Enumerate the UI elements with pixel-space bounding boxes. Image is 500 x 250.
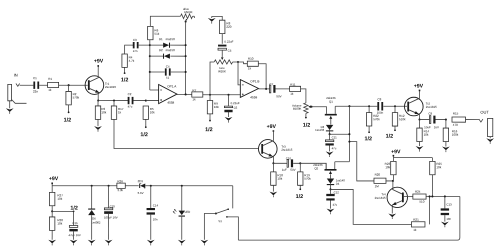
svg-text:C2: C2 <box>128 92 132 96</box>
LED indicator <box>181 186 183 211</box>
svg-text:570k: 570k <box>304 177 311 181</box>
transistor Q1 2sk246 <box>325 114 337 116</box>
svg-text:10k: 10k <box>214 105 219 109</box>
wire (+9V to Tr3 collector) <box>272 132 274 141</box>
svg-text:S1: S1 <box>218 219 222 223</box>
wire (divider to bias tap) <box>52 210 73 212</box>
node (rail/D1) <box>149 44 151 46</box>
svg-text:C7: C7 <box>269 82 273 86</box>
wire (node B to R3) <box>97 101 99 106</box>
wire (C2 to node D) <box>134 100 146 102</box>
zener diode ZD1 5.6V <box>140 183 145 188</box>
svg-text:47u: 47u <box>128 105 133 109</box>
svg-text:A500K: A500K <box>184 10 193 14</box>
transistor Tr2 2sc1815 <box>405 97 424 116</box>
node E (R7/R9/tone) <box>209 94 211 96</box>
capacitor C3 <box>133 42 135 48</box>
wire (R21 riser) <box>429 196 431 224</box>
svg-text:R26: R26 <box>117 179 123 183</box>
diode D2 ma150 <box>150 55 164 57</box>
capacitor C11 <box>329 134 331 140</box>
wire (emitter line to C2) <box>98 100 128 102</box>
resistor R15 <box>452 117 466 122</box>
diode D3 1ss133 <box>326 125 333 130</box>
svg-text:100uF 16V: 100uF 16V <box>104 216 118 220</box>
capacitor C2 <box>128 97 130 104</box>
svg-text:10k: 10k <box>57 197 62 201</box>
resistor R14 <box>418 120 420 129</box>
svg-text:1/2: 1/2 <box>64 118 72 124</box>
ground (C15) <box>108 214 110 240</box>
node G (tone/R10) <box>237 61 239 63</box>
wire (OP1.A output) <box>177 93 192 95</box>
ground (R3) <box>97 119 99 126</box>
resistor R11 <box>290 86 301 91</box>
svg-text:1/2: 1/2 <box>386 134 394 140</box>
svg-text:510k: 510k <box>399 117 406 121</box>
svg-text:10n: 10n <box>153 217 158 221</box>
wire (+9V to R27) <box>51 184 53 192</box>
wire (R1 to Tr1 base) <box>59 84 88 86</box>
wire (gate rail to R20) <box>349 142 374 181</box>
svg-text:1uF: 1uF <box>282 168 287 172</box>
node (R22 top) <box>368 105 370 107</box>
svg-text:1/2: 1/2 <box>70 206 78 212</box>
svg-text:ma150: ma150 <box>166 48 176 52</box>
wire (Tr4 emitter to ground) <box>391 205 393 213</box>
svg-text:C16: C16 <box>72 221 78 225</box>
svg-text:LED: LED <box>185 210 191 214</box>
wire (R2 to switch tap) <box>68 105 70 113</box>
wire (C8 to Tr2 base) <box>383 105 407 107</box>
svg-text:1ss133: 1ss133 <box>315 128 324 132</box>
svg-text:16V: 16V <box>434 125 439 129</box>
wire (R10 to OP1.B output) <box>258 64 266 89</box>
svg-text:+9V: +9V <box>94 59 104 65</box>
svg-text:C14: C14 <box>153 204 159 208</box>
ground (C5) <box>228 112 230 117</box>
ground (S1) <box>200 240 208 244</box>
wire (Tr2 emitter down) <box>419 114 421 119</box>
wire (Q1 source to C8 line) <box>335 105 377 107</box>
node (feedback/output) <box>265 88 267 90</box>
svg-text:1k: 1k <box>192 97 196 101</box>
resistor R21 <box>411 222 425 227</box>
resistor R4 <box>122 54 127 67</box>
wire (ZD1 to switch corner) <box>145 185 232 187</box>
svg-text:1n4002: 1n4002 <box>91 221 101 225</box>
svg-text:51k: 51k <box>154 32 159 36</box>
node H (gate rail top) <box>348 105 350 107</box>
wire (+9V to Tr1 collector) <box>97 67 99 78</box>
input tip connector <box>16 84 20 87</box>
svg-text:22n: 22n <box>33 90 38 94</box>
svg-text:C3: C3 <box>133 38 137 42</box>
svg-text:4558: 4558 <box>167 101 174 105</box>
capacitor C14 <box>150 186 152 208</box>
wire (R6 top to drive pot) <box>150 16 180 26</box>
wire (Tr4 base to R24) <box>404 196 413 198</box>
capacitor C8 <box>377 102 379 110</box>
node (Tr3 emitter) <box>272 162 274 164</box>
ground (R8 top) <box>212 16 223 20</box>
node M (C13 top) <box>444 195 446 197</box>
wire (D4 node to R21) <box>330 189 411 224</box>
svg-text:2sc1815: 2sc1815 <box>375 196 386 200</box>
svg-text:2sc1815: 2sc1815 <box>281 148 292 152</box>
svg-text:ZD1: ZD1 <box>138 179 144 183</box>
svg-text:470: 470 <box>453 123 458 127</box>
svg-text:R10: R10 <box>248 57 254 61</box>
svg-text:+9V: +9V <box>414 83 424 89</box>
capacitor C12 <box>329 189 331 194</box>
wire (R26 to ZD1) <box>125 185 138 187</box>
svg-text:1M: 1M <box>375 184 380 188</box>
svg-text:1k: 1k <box>248 66 252 70</box>
svg-text:OP1.B: OP1.B <box>250 79 259 83</box>
wire (D3 node to gate rail) <box>330 133 350 135</box>
svg-text:+9V: +9V <box>391 149 401 155</box>
resistor R27 <box>49 192 54 205</box>
svg-text:C6: C6 <box>228 49 232 53</box>
svg-text:220: 220 <box>226 25 231 29</box>
svg-text:2sc1815: 2sc1815 <box>105 85 116 89</box>
svg-text:R11: R11 <box>290 83 296 87</box>
node (rail/D2) <box>149 55 151 57</box>
svg-text:10uF: 10uF <box>424 125 431 129</box>
node K (Tr4 collector) <box>392 180 394 182</box>
svg-text:OP1.A: OP1.A <box>167 84 177 88</box>
svg-text:R24: R24 <box>415 190 421 194</box>
svg-text:47u: 47u <box>332 146 337 150</box>
wire (gate rail upper) <box>348 106 350 162</box>
resistor R22 <box>368 106 370 112</box>
output tip connector <box>479 119 483 122</box>
svg-text:D1: D1 <box>159 37 163 41</box>
resistor R25 <box>430 161 435 174</box>
node C (R17 top) <box>113 100 115 102</box>
node L (R25 bottom) <box>431 195 433 197</box>
svg-text:1/2: 1/2 <box>303 123 311 129</box>
resistor R18 <box>272 163 274 172</box>
wire (C9 to node I) <box>436 119 446 121</box>
ground (R16) <box>445 141 447 146</box>
tone pot wiper <box>221 50 223 57</box>
ground (C12) <box>329 201 331 209</box>
op-amp OP1.B 4558 <box>240 80 258 98</box>
node (D4/C12) <box>329 184 331 190</box>
svg-text:+9V: +9V <box>267 124 277 130</box>
wire (R25 to node L) <box>431 175 433 197</box>
ground (R18) <box>272 185 274 191</box>
resistor R7 <box>192 92 203 97</box>
wire (wiper to right rail) <box>185 22 187 95</box>
svg-text:1k: 1k <box>413 228 417 232</box>
ground (C14) <box>150 215 152 240</box>
resistor R6 <box>148 26 153 39</box>
node B (Tr1 emitter) <box>97 99 99 101</box>
svg-text:C1: C1 <box>33 76 37 80</box>
diode D4 1ss133 <box>327 179 334 184</box>
svg-text:C11: C11 <box>332 135 337 139</box>
wire (tip to C1) <box>20 84 34 86</box>
svg-text:10k: 10k <box>436 165 441 169</box>
svg-text:1k: 1k <box>48 88 52 92</box>
svg-text:47uF 16V: 47uF 16V <box>69 233 81 237</box>
wire (C1 to R1) <box>39 84 47 86</box>
ground (Tr4 emitter) <box>388 213 396 217</box>
svg-text:C13: C13 <box>446 202 452 206</box>
ground (D6) <box>91 215 93 240</box>
svg-text:C10: C10 <box>286 156 292 160</box>
wire (node C to R17) <box>113 101 115 106</box>
resistor R12 <box>394 106 396 112</box>
wire (Q2 source to gate rail) <box>335 161 350 163</box>
resistor R19 <box>299 163 301 172</box>
transistor Tr4 2sc1815 (mirrored) <box>387 187 407 207</box>
svg-text:R15: R15 <box>453 111 459 115</box>
potentiometer VR3 Volume B100K <box>304 103 308 114</box>
svg-text:W20K: W20K <box>218 69 226 73</box>
resistor R5 <box>143 106 148 119</box>
svg-text:C9: C9 <box>428 112 432 116</box>
wire (node K to Tr4 collector) <box>392 181 394 190</box>
wire (R20 to collector node) <box>386 180 393 182</box>
svg-text:R20: R20 <box>375 173 381 177</box>
wire (node G to OP1.B inv) <box>238 62 240 85</box>
wire (OP1.B out to C7) <box>259 88 270 90</box>
svg-text:OUT: OUT <box>480 110 489 115</box>
wire (volume bottom to tap) <box>305 113 307 117</box>
node (R27/R28 divider) <box>51 210 53 212</box>
op-amp OP1.A 4558 <box>159 84 177 103</box>
diode D1 ma150 <box>150 44 163 46</box>
wire (Q2 gate to D4) <box>329 174 331 178</box>
node D (R5 top) <box>145 100 147 102</box>
ground (C11) <box>329 146 331 152</box>
wire (+9V to Tr2 collector) <box>419 91 421 99</box>
transistor Tr3 2sc1815 <box>258 140 277 159</box>
svg-text:C4: C4 <box>166 65 170 69</box>
wire (R17 to Tr3 base) <box>114 119 258 148</box>
wire (Tr1 emitter down) <box>97 93 99 101</box>
node (D6 top) <box>91 185 93 187</box>
capacitor C15 100uF 16V <box>108 186 110 208</box>
wire (Tr3 emitter down) <box>272 157 274 164</box>
svg-text:10n: 10n <box>446 217 451 221</box>
svg-text:570k: 570k <box>73 96 80 100</box>
svg-text:C8: C8 <box>377 97 381 101</box>
wire (S1 lower to loop) <box>228 217 239 240</box>
potentiometer VR2 tone W20K <box>214 60 232 64</box>
wire (R19 to switch tap) <box>299 185 301 189</box>
output jack J2 <box>488 118 493 136</box>
node (C4/right rail) <box>185 71 187 73</box>
svg-text:D2: D2 <box>159 48 163 52</box>
svg-text:10k: 10k <box>101 110 106 114</box>
resistor R8 <box>220 20 225 33</box>
wire (R9 to switch tap) <box>209 114 211 121</box>
wire (R15 to output) <box>466 119 479 121</box>
svg-text:10k: 10k <box>385 165 390 169</box>
volume pot wiper <box>308 105 311 108</box>
svg-text:1/2: 1/2 <box>121 77 129 83</box>
node (R12 top) <box>394 105 396 107</box>
svg-text:3.3k: 3.3k <box>117 188 123 192</box>
svg-text:R1: R1 <box>48 77 52 81</box>
svg-text:C12: C12 <box>334 190 340 194</box>
wire (R5 to switch tap) <box>145 119 147 127</box>
switch S1 lever <box>216 209 228 213</box>
transistor Tr1 2sc1815 <box>85 76 104 95</box>
svg-text:10k: 10k <box>150 110 155 114</box>
wire (node A to R2) <box>68 85 70 91</box>
potentiometer VR1 drive A500K <box>181 14 193 19</box>
svg-text:IN: IN <box>14 73 18 78</box>
svg-text:1k: 1k <box>118 110 122 114</box>
wire (R7 to OP1.B +) <box>203 94 241 96</box>
node (rail/C4) <box>149 71 151 73</box>
wire (R23 to node K) <box>392 175 394 181</box>
input jack J1 <box>8 84 12 100</box>
wire (node J to Q2 drain) <box>300 163 326 169</box>
svg-text:10k: 10k <box>277 177 282 181</box>
wire (S1 pole to ground) <box>204 213 216 239</box>
wire (rail to OP1.A inv) <box>150 89 159 91</box>
wire (node D to op-amp +) <box>146 100 159 102</box>
svg-text:D4: D4 <box>336 182 340 186</box>
svg-text:R21: R21 <box>413 218 419 222</box>
svg-text:4558: 4558 <box>250 95 257 99</box>
wire (rail to S1 upper contact) <box>232 186 234 209</box>
wire (left rail) <box>149 40 151 90</box>
resistor R23 <box>391 161 396 174</box>
resistor R17 <box>111 106 116 119</box>
drive pot wiper <box>185 19 188 21</box>
svg-text:0.22uF: 0.22uF <box>224 40 233 44</box>
capacitor C10 1uF 50V <box>287 159 288 167</box>
capacitor C16 47uF 16V <box>73 211 75 225</box>
wire (R24 to loop) <box>426 195 460 197</box>
resistor R1 <box>48 82 59 87</box>
capacitor C7 <box>270 85 271 93</box>
capacitor C9 10uF 16V <box>430 116 431 124</box>
svg-text:R7: R7 <box>192 88 196 92</box>
svg-text:5.6V: 5.6V <box>138 191 144 195</box>
ground (R28) <box>51 230 53 239</box>
capacitor C13 <box>444 196 446 208</box>
svg-text:1k: 1k <box>290 92 294 96</box>
wire (emitter to C9) <box>420 119 430 121</box>
svg-text:C5: C5 <box>234 106 238 110</box>
ground (C13) <box>444 215 446 222</box>
svg-text:1/2: 1/2 <box>205 127 213 133</box>
svg-text:100k: 100k <box>452 133 459 137</box>
svg-text:1/2: 1/2 <box>296 194 304 200</box>
svg-text:50V: 50V <box>290 168 295 172</box>
node (D3/C11) <box>329 130 331 134</box>
svg-text:51: 51 <box>166 76 170 80</box>
svg-text:570k: 570k <box>373 117 380 121</box>
node (C14 top) <box>150 185 152 187</box>
wire (R12 to switch tap) <box>394 126 396 130</box>
wire (C3 to left rail) <box>138 44 150 46</box>
resistor R2 <box>66 91 71 104</box>
transistor Q2 2sk246 <box>324 169 336 171</box>
svg-text:47u: 47u <box>333 203 338 207</box>
wire (C7 to R11) <box>276 88 290 90</box>
wire (tone left to node E) <box>210 62 214 95</box>
ground (R14) <box>418 141 420 146</box>
svg-text:C15: C15 <box>110 204 116 208</box>
wire (switch loop right) <box>238 196 460 240</box>
wire (R11 to volume pot) <box>301 89 306 103</box>
resistor R26 <box>117 183 125 188</box>
resistor R10 <box>238 62 247 64</box>
svg-text:+9V: +9V <box>49 176 59 182</box>
resistor R16 <box>445 120 447 128</box>
wire (C3 left lead) <box>125 45 134 54</box>
wire (tone right lead) <box>233 61 238 63</box>
node A (R1/R2/base) <box>68 84 70 86</box>
S1 upper contact <box>227 208 229 210</box>
wire (supply rail) <box>52 185 117 187</box>
svg-text:100n: 100n <box>377 111 384 115</box>
node (output/right rail) <box>185 93 187 95</box>
ground (input jack) <box>9 101 11 108</box>
resistor R3 <box>95 106 100 119</box>
svg-text:1/2: 1/2 <box>365 136 373 142</box>
svg-text:1/2: 1/2 <box>140 132 148 138</box>
svg-text:50V: 50V <box>276 94 281 98</box>
svg-text:47n: 47n <box>133 49 138 53</box>
svg-text:Q2: Q2 <box>314 166 318 170</box>
resistor R20 <box>374 178 386 183</box>
svg-text:10k: 10k <box>424 133 429 137</box>
resistor R9 <box>209 95 211 101</box>
node (Tr2 emitter) <box>418 119 420 121</box>
node (D2/right rail) <box>185 55 187 57</box>
diode D6 1n4002 <box>91 186 93 209</box>
svg-text:0.22uF: 0.22uF <box>231 101 240 105</box>
ground (output jack) <box>489 137 491 139</box>
wire (C10 to node J) <box>293 162 300 164</box>
node (D1/right rail) <box>185 44 187 46</box>
svg-text:10k: 10k <box>57 222 62 226</box>
resistor R28 <box>49 217 54 230</box>
wire (R27 to R28) <box>51 206 53 217</box>
capacitor C4 <box>150 71 165 73</box>
capacitor C1 <box>33 82 35 89</box>
wire (Q1 gate to D3) <box>330 119 332 125</box>
wire (R22 to switch tap) <box>368 126 370 132</box>
resistor R24 <box>413 194 426 199</box>
node (C15 top) <box>108 185 110 187</box>
wire (+9V rail to R23/R25) <box>393 157 432 159</box>
node J (R19 top) <box>299 162 301 164</box>
ground (C16) <box>73 231 75 239</box>
svg-text:B100K: B100K <box>293 107 302 111</box>
svg-text:510: 510 <box>419 200 424 204</box>
ground (LED) <box>181 217 183 240</box>
svg-text:ma150: ma150 <box>166 37 176 41</box>
svg-text:Q1: Q1 <box>329 100 333 104</box>
wire (emitter to C10) <box>273 162 287 164</box>
node I (R15/R16) <box>445 119 447 121</box>
capacitor C6 0.22uF <box>221 34 223 44</box>
wire (wiper to Q1 drain) <box>312 107 327 114</box>
svg-text:4.7k: 4.7k <box>129 59 135 63</box>
